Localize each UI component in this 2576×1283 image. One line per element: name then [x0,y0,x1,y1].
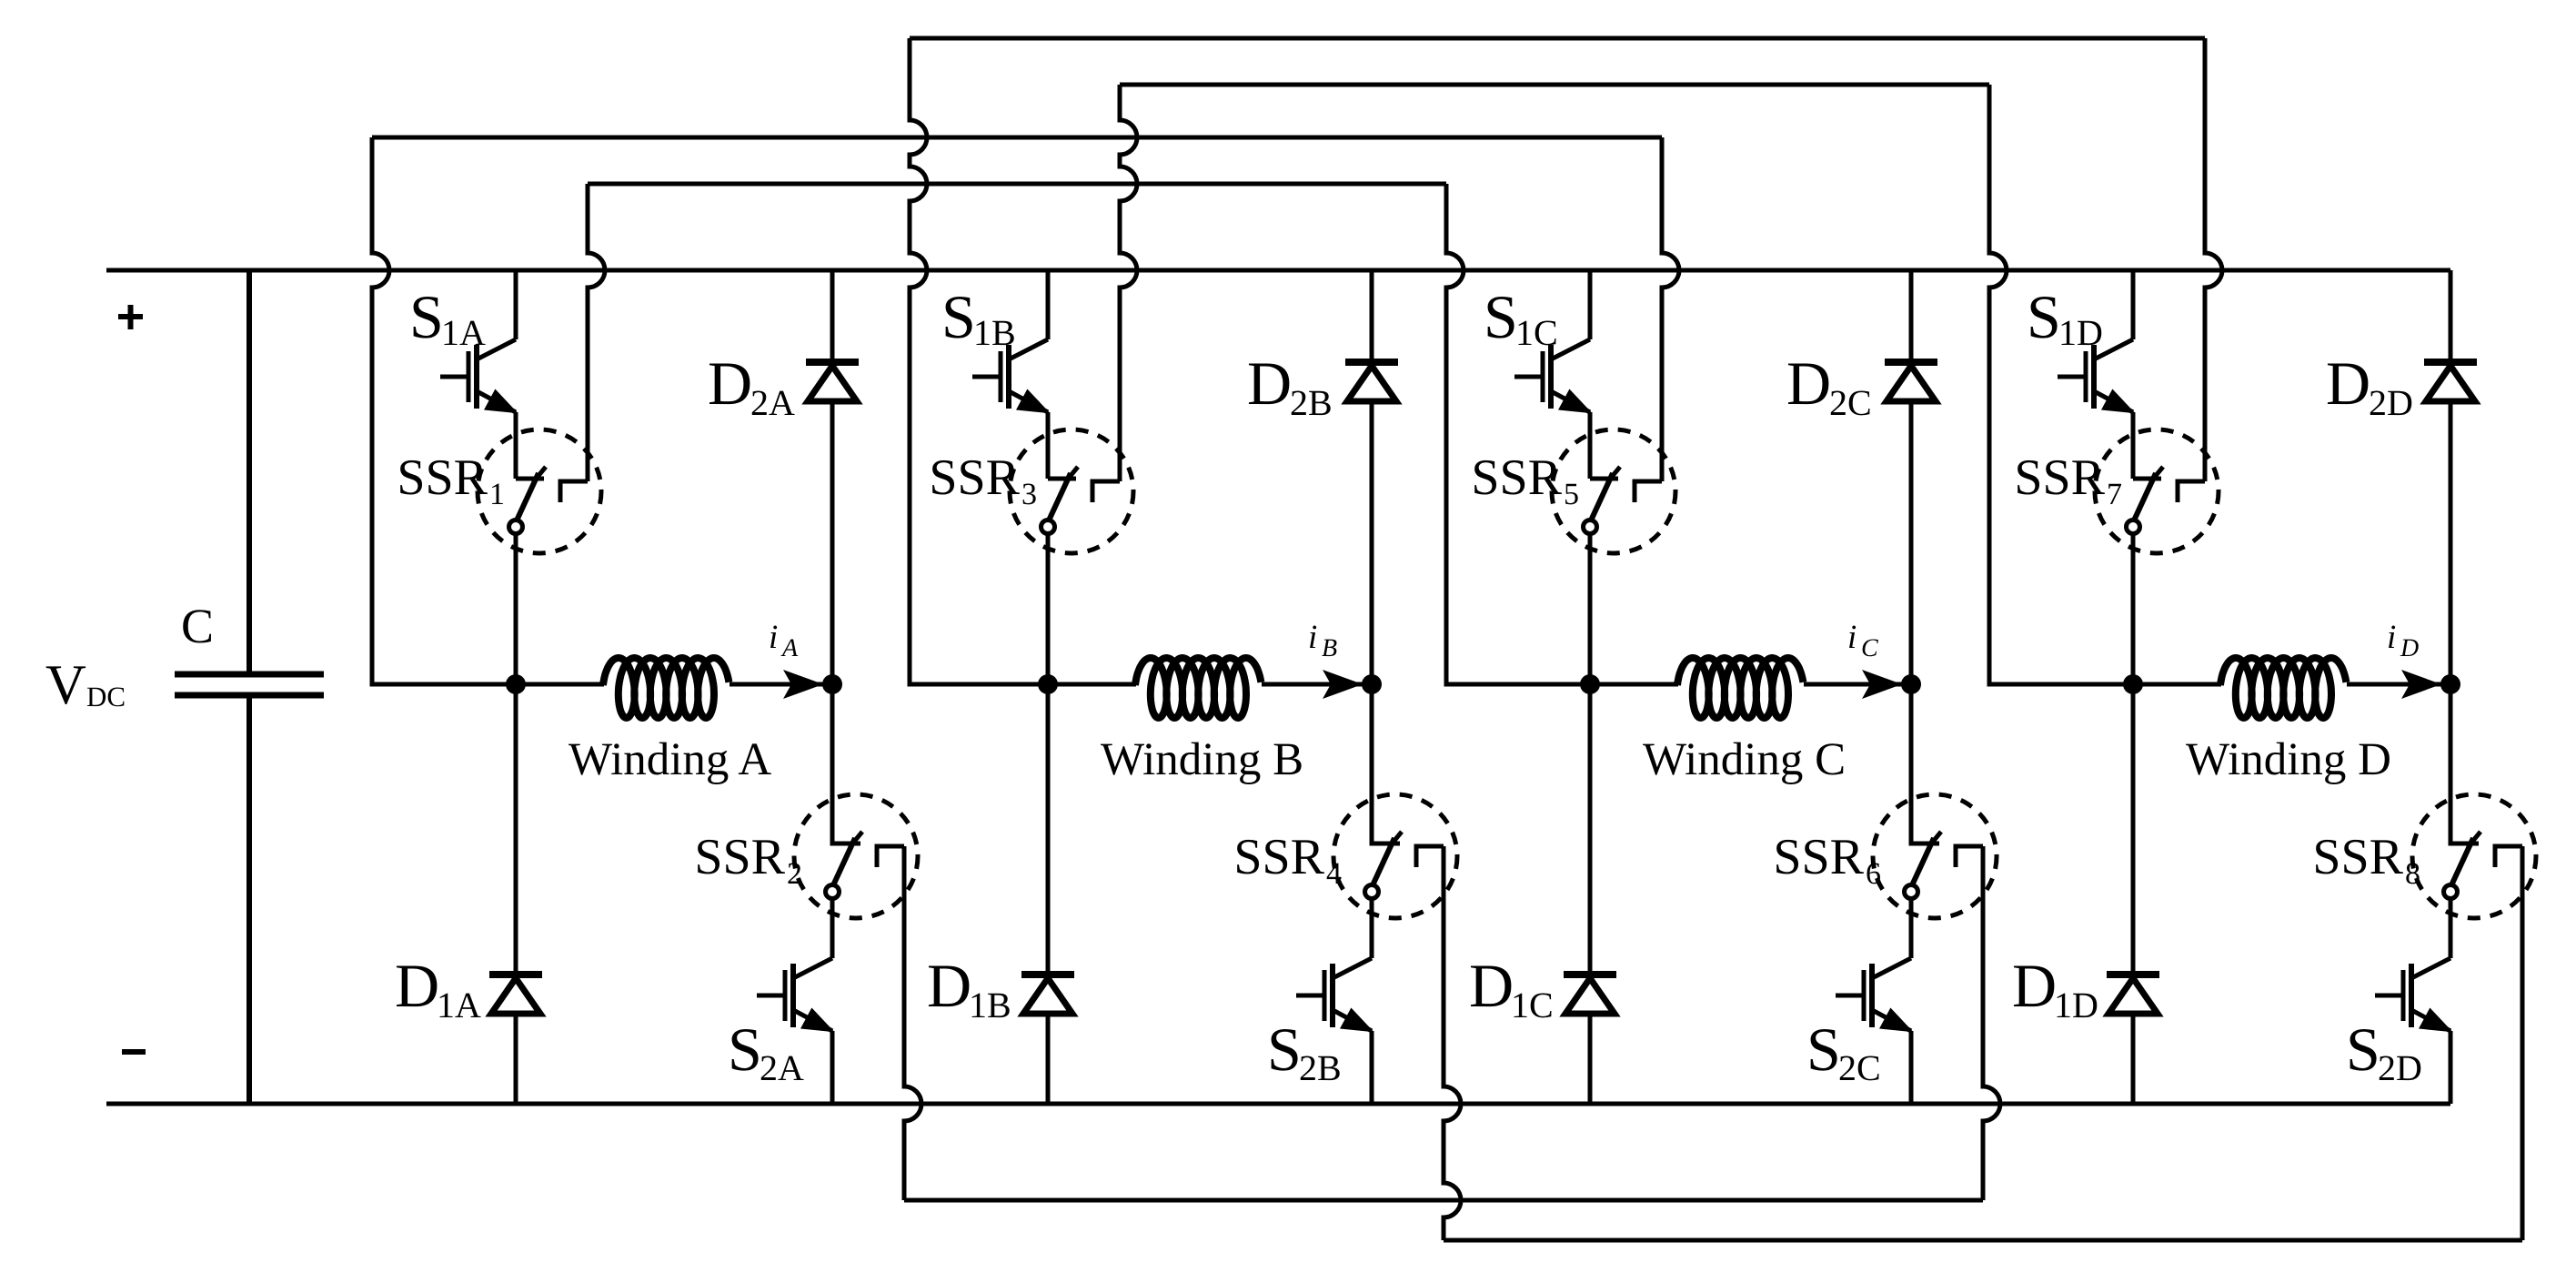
SSR7 relay [2095,429,2219,553]
inductor Winding D [2133,658,2450,718]
svg-text:S: S [2027,282,2061,351]
label S2B [1267,1015,1342,1088]
svg-text:i: i [769,619,778,656]
transistor S1C (IGBT) [1514,270,1590,479]
svg-text:2C: 2C [1829,382,1872,423]
SSR3 relay [1010,429,1133,553]
svg-text:2B: 2B [1299,1047,1342,1088]
wire winding-D left riser [1989,85,2133,684]
svg-text:2A: 2A [760,1047,804,1088]
label SSR8 [2312,829,2420,891]
label - [122,1049,146,1055]
diode D2A [806,270,859,684]
wire SSR2 contact dropper [904,846,921,1200]
label + [118,305,143,329]
svg-text:1A: 1A [437,985,481,1025]
wire SSR1 to winding node [514,534,518,684]
label S1D [2027,282,2103,353]
label S2D [2346,1015,2422,1088]
wire SSR4 contact dropper [1444,846,1461,1240]
svg-text:SSR: SSR [397,450,488,506]
svg-text:7: 7 [2107,478,2122,511]
diode D1A [489,684,542,1104]
capacitor C bottom plate [175,692,324,699]
svg-text:D: D [1247,349,1292,418]
svg-text:DC: DC [86,681,126,712]
wire SSR6 contact dropper [1983,846,2000,1200]
svg-text:S: S [728,1015,762,1084]
label i_A current [769,619,799,662]
label SSR6 [1773,829,1881,891]
label D1A [395,951,481,1025]
svg-text:1A: 1A [441,312,486,353]
node winding A left [506,674,526,694]
svg-text:1B: 1B [969,985,1011,1025]
SSR5 relay [1552,429,1675,553]
label SSR3 [929,450,1037,511]
wire V_DC branch upper [247,270,252,672]
wire winding-B left riser [910,38,1048,684]
svg-text:SSR: SSR [1773,829,1864,885]
node winding C right [1901,674,1921,694]
svg-text:2B: 2B [1290,382,1333,423]
label C [181,599,214,653]
svg-text:Winding B: Winding B [1101,734,1303,785]
transistor S2A (IGBT) [757,899,832,1104]
diode D1D [2107,684,2159,1104]
svg-text:2A: 2A [750,382,795,423]
SSR2 relay [794,684,918,918]
SSR8 relay [2412,684,2536,918]
wire bottom interconnect SSR2-SSR6 [904,1198,1983,1203]
node winding C left [1580,674,1600,694]
svg-text:5: 5 [1564,478,1579,511]
wire SSR7 contact riser [2205,38,2222,481]
svg-text:SSR: SSR [929,450,1020,506]
node winding D right [2440,674,2460,694]
label S2C [1806,1015,1881,1088]
SSR1 relay [478,429,601,553]
svg-text:SSR: SSR [2014,450,2105,506]
wire top interconnect W1 (winding-B-left to SSR7 contact) [910,36,2205,41]
inductor Winding B [1048,658,1372,718]
SSR6 relay [1873,684,1997,918]
capacitor C top plate [175,672,324,678]
label D1B [927,951,1011,1025]
wire SSR7 to winding node [2131,534,2136,684]
diode D2B [1345,270,1398,684]
label S1C [1484,282,1558,353]
wire SSR3 contact riser [1120,85,1137,481]
label D2A [708,349,795,423]
svg-text:SSR: SSR [1471,450,1562,506]
wire SSR5 contact riser [1662,137,1679,481]
label D1C [1469,951,1554,1025]
svg-text:2D: 2D [2378,1047,2422,1088]
label D2C [1786,349,1872,423]
transistor S1A (IGBT) [440,270,516,479]
transistor S1B (IGBT) [972,270,1048,479]
wire top interconnect W2 (SSR3 contact to winding-D-left) [1120,83,1989,87]
svg-text:SSR: SSR [2312,829,2403,885]
label SSR4 [1233,829,1342,891]
wire SSR8 contact dropper [2521,846,2525,1240]
label S2A [728,1015,804,1088]
inductor Winding C [1590,658,1911,718]
label Winding D [2186,734,2391,785]
svg-text:1D: 1D [2058,312,2103,353]
svg-text:6: 6 [1866,857,1881,891]
transistor S1D (IGBT) [2058,270,2133,479]
diode D2D [2424,270,2477,684]
wire negative DC bus (-) [106,1102,2450,1106]
svg-text:D: D [708,349,752,418]
label SSR1 [397,450,505,511]
svg-text:A: A [780,634,799,662]
diode D1B [1021,684,1074,1104]
transistor S2C (IGBT) [1836,899,1911,1104]
svg-text:i: i [1308,619,1317,656]
svg-text:D: D [1786,349,1831,418]
node winding B right [1362,674,1382,694]
wire SSR1 contact riser [588,184,605,481]
label Winding B [1101,734,1303,785]
svg-text:2D: 2D [2369,382,2413,423]
label S1A [409,282,486,353]
transistor S2B (IGBT) [1296,899,1372,1104]
label Winding A [569,734,771,785]
label i_C current [1847,619,1878,662]
label V_DC [45,654,126,716]
diode D1C [1564,684,1616,1104]
svg-text:8: 8 [2405,857,2420,891]
svg-text:3: 3 [1021,478,1037,511]
svg-text:SSR: SSR [1233,829,1324,885]
label SSR2 [694,829,802,891]
svg-text:D: D [395,951,439,1020]
label i_B current [1308,619,1337,662]
inductor Winding A [516,658,832,718]
node winding B left [1038,674,1058,694]
svg-text:2: 2 [787,857,802,891]
wire top interconnect W3 (winding-A-left to SSR5 contact) [372,136,1662,140]
wire winding-C left riser [1446,184,1590,684]
label D1D [2012,951,2098,1025]
svg-text:1C: 1C [1511,985,1554,1025]
svg-text:D: D [2400,634,2419,662]
svg-text:1B: 1B [973,312,1016,353]
svg-text:S: S [1267,1015,1302,1084]
svg-text:B: B [1322,634,1337,662]
svg-text:Winding A: Winding A [569,734,771,785]
label D2D [2326,349,2413,423]
SSR4 relay [1333,684,1457,918]
svg-text:S: S [2346,1015,2380,1084]
svg-text:D: D [1469,951,1514,1020]
svg-text:D: D [2012,951,2057,1020]
node winding D left [2123,674,2143,694]
wire top interconnect W4 (SSR1 contact to winding-C-left) [588,182,1446,187]
svg-text:S: S [941,282,976,351]
transistor S2D (IGBT) [2375,899,2450,1104]
diode D2C [1885,270,1937,684]
svg-text:D: D [927,951,971,1020]
svg-text:Winding C: Winding C [1643,734,1846,785]
svg-text:V: V [45,654,86,716]
svg-text:1C: 1C [1515,312,1558,353]
svg-text:C: C [181,599,214,653]
svg-text:S: S [1484,282,1518,351]
label Winding C [1643,734,1846,785]
wire V_DC branch lower [247,698,252,1104]
label S1B [941,282,1016,353]
svg-text:i: i [2387,619,2396,656]
wire SSR5 to winding node [1588,534,1593,684]
svg-text:2C: 2C [1838,1047,1881,1088]
svg-text:S: S [1806,1015,1841,1084]
label SSR5 [1471,450,1579,511]
wire winding-A left riser [372,137,516,684]
svg-text:1D: 1D [2054,985,2098,1025]
svg-text:1: 1 [489,478,505,511]
node winding A right [822,674,842,694]
wire positive DC bus (+) [106,268,2450,273]
wire SSR3 to winding node [1046,534,1051,684]
wire bottom interconnect SSR4-SSR8 [1444,1238,2522,1243]
label i_D current [2387,619,2419,662]
svg-text:C: C [1861,634,1878,662]
svg-text:S: S [409,282,444,351]
svg-text:SSR: SSR [694,829,785,885]
svg-text:Winding D: Winding D [2186,734,2391,785]
svg-text:4: 4 [1326,857,1342,891]
label D2B [1247,349,1333,423]
svg-text:i: i [1847,619,1857,656]
label SSR7 [2014,450,2122,511]
svg-text:D: D [2326,349,2370,418]
